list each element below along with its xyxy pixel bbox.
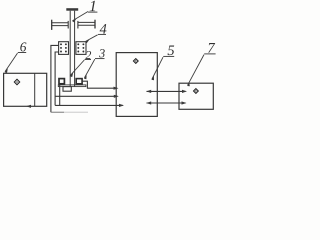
wire D faint continuation [64,111,88,113]
arrowhead wire G at box5 side [146,101,151,104]
support beam right arm [78,21,95,23]
wire B common bus [55,95,117,97]
bolt cap (1) [66,8,78,11]
arrowhead wire B into box5 [114,95,119,98]
leader 4 [86,35,98,42]
holder box under stem [63,87,71,92]
leader 2 arrow [70,73,73,78]
label 5 [168,46,175,56]
label 3 [99,49,105,57]
beam right end flange [94,20,96,29]
arrowhead wire F at box5 side [146,90,151,93]
label 1 [90,1,96,11]
symbol in box 6 [14,79,19,84]
base plate [58,85,86,87]
symbol in box 7 [194,89,199,94]
leader 1 [73,12,89,21]
divider line in box6 [34,74,36,107]
label 2 [85,51,91,59]
leader 1 arrow [72,18,77,22]
arrowhead wire F into box7 [182,90,187,93]
left block (2) [59,79,64,84]
arrowhead wire C into box5 [119,104,124,107]
box 6 oscillator [4,73,47,106]
arrowhead wire A into box5 [114,87,119,90]
label 6 [20,42,26,51]
coil lead A [51,45,59,112]
wire from left block down (v3) + wire C [59,84,61,105]
coil left half (4) [59,42,69,55]
leader 5 [152,57,163,79]
leader 2 [70,60,84,76]
box 5 amplifier [116,53,157,117]
leader 5 arrow [151,76,154,81]
wire F box5 to box7 [147,90,186,92]
stem / horn shaft [69,11,71,87]
right block (3) [76,79,82,84]
symbol in box 5 [133,59,138,64]
support beam left arm [52,22,68,24]
leader 6 arrow [5,69,8,74]
leader 6 [5,53,18,72]
leader 3 arrow [84,75,87,80]
wire A from right block [82,81,117,88]
beam left end flange [51,20,53,30]
leader 3 [84,59,94,78]
arrowhead wire G into box7 [182,101,187,104]
coil winding dots [60,43,84,52]
hub tick left [67,21,69,29]
wire C [55,104,123,106]
wire D to box5 lower left [51,111,64,113]
coil lead B [55,52,59,105]
box 7 meter [179,83,213,109]
wire G box5 to box7 [147,102,186,104]
leader 7 arrow [187,82,190,87]
arrowhead on box6 bottom edge [26,105,31,108]
label 7 [208,43,215,53]
leader 7 [188,55,204,86]
coil right half (4) [76,42,86,55]
hub tick right [77,21,79,29]
label 4 [100,24,107,33]
leader 4 arrow [85,40,89,44]
